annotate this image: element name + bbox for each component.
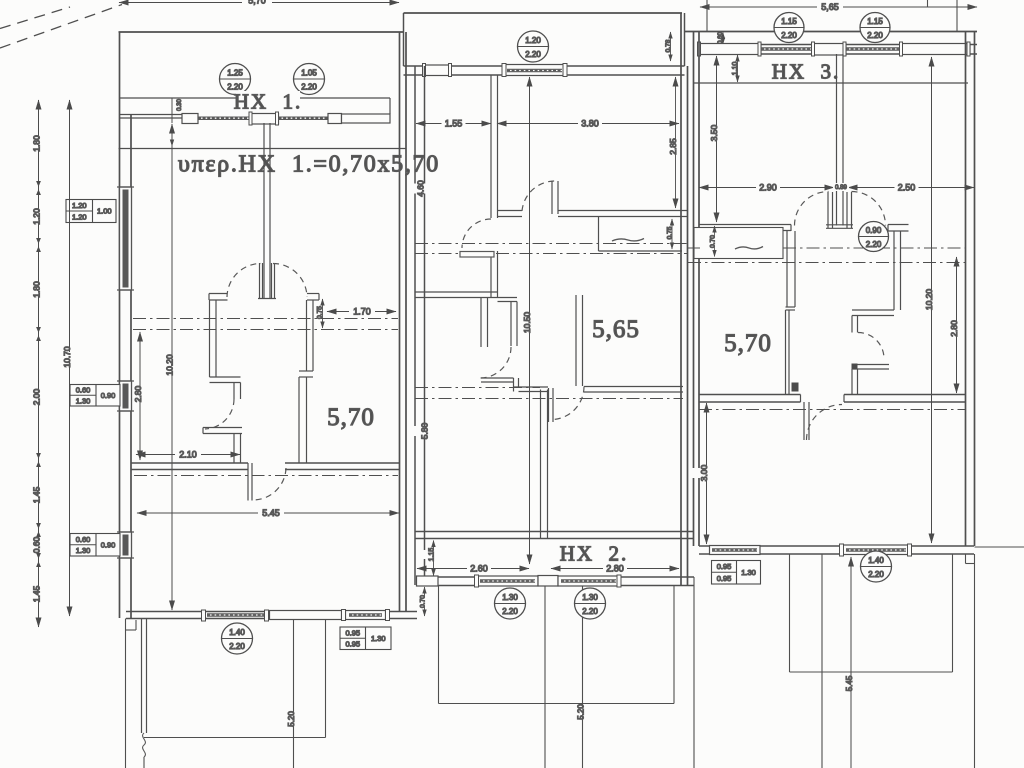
svg-text:1.20: 1.20 [525,36,541,45]
HX3 lower interior wall right [844,394,966,396]
HX2 left wall [414,66,416,585]
left dimension chain [38,100,40,627]
HX2 room axis upper [415,387,540,389]
HX1 left window 1 [120,187,132,290]
svg-text:1.15: 1.15 [781,17,797,26]
HX3 right edge lower [965,554,967,564]
label box 0.95/0.95/1.30 HX3 [712,561,761,585]
svg-text:2.20: 2.20 [781,31,797,40]
HX2 bottom window left [477,576,538,586]
HX3 door swing arc right [852,192,886,226]
dimension 10.20 HX3 [931,57,933,543]
HX2 wall step lower [513,378,515,392]
HX1 left window 2 [120,381,132,411]
label box 0.60/1.30/0.90 upper [70,385,120,407]
HX2 bottom sill left [417,576,439,586]
HX1 center mullion [263,123,265,298]
svg-text:0.95: 0.95 [345,628,360,637]
svg-text:2.85: 2.85 [668,138,678,155]
HX1 porch right line [325,619,327,738]
HX1 porch divider line [293,619,295,768]
svg-text:5.80: 5.80 [419,422,429,439]
svg-text:1.30: 1.30 [76,546,91,555]
HX1 porch left wall [141,619,143,734]
HX1 interior wall right lower [298,377,300,463]
HX1 interior wall lower [233,434,235,464]
svg-text:1.20: 1.20 [72,201,87,210]
svg-text:0.90: 0.90 [101,540,116,549]
svg-text:2.90: 2.90 [759,183,777,193]
svg-text:2.10: 2.10 [179,450,197,460]
svg-text:1.80: 1.80 [31,135,41,152]
svg-text:10.20: 10.20 [924,289,934,311]
label HX 1. [236,91,300,111]
HX3 bottom window right [843,545,910,555]
HX1 lower door leaf [247,463,249,501]
left overall dimension 10.70 [69,100,71,616]
svg-text:1.30: 1.30 [741,568,756,577]
HX3 wall left of door [699,224,791,226]
HX2 bottom window pier [538,576,558,587]
HX1 interior door arc [205,399,234,429]
HX3 window sill right [901,44,971,55]
HX2 porch bottom [439,703,675,705]
HX3 hall axis upper [688,247,700,249]
HX3 door swing arc left [795,192,829,226]
HX3 lower door arc [807,405,843,441]
HX1 lower interior wall right [285,462,399,464]
HX3 bottom door circle 1.40/2.20 [861,551,892,582]
HX2 front window wall [404,65,685,67]
svg-text:5,70: 5,70 [327,404,375,431]
svg-text:1.15: 1.15 [867,17,883,26]
label box 1.20/1.20/1.00 [66,200,116,223]
svg-text:0.70: 0.70 [419,595,426,608]
svg-text:5,65: 5,65 [821,2,839,12]
HX2 interior wall upper [490,75,492,218]
HX2 interior step [498,210,523,212]
HX1 glazing right [279,116,329,118]
HX3 interior door arc [858,333,884,359]
dimension 0.50 HX1 lintel lower [171,126,173,146]
dimension 1.55 HX2 [416,123,491,125]
HX3 terrace circle 1.15/2.20 right [860,13,890,43]
HX3 right room wall upper [893,231,895,310]
svg-text:1.30: 1.30 [582,593,598,602]
HX2 door leaf upper [551,181,553,214]
HX1 front wall left part [119,114,182,116]
site boundary dashed diagonal upper [0,7,70,29]
HX1 bottom wall [126,611,417,613]
svg-text:0.95: 0.95 [717,562,732,571]
dimension 2.85 HX2 [675,77,677,208]
HX3 terrace circle 1.15/2.20 left [774,13,804,43]
site boundary dashed diagonal [0,5,122,49]
svg-text:1.55: 1.55 [445,119,463,129]
svg-text:0.75: 0.75 [666,226,673,239]
HX3 left room pier [792,383,799,392]
HX1 upper interior line [119,97,390,99]
dimension 1.10 HX3 [737,55,739,82]
HX2 bottom window right [558,576,619,586]
svg-text:2.20: 2.20 [502,607,518,616]
dimension 3.00 HX3 [706,403,708,544]
HX3 door jamb right [888,224,909,226]
dimension 1.70 HX1 [327,311,396,313]
svg-text:2.20: 2.20 [868,570,884,579]
svg-text:5.20: 5.20 [287,711,296,727]
svg-text:0.30: 0.30 [177,99,183,111]
svg-text:0.60: 0.60 [76,535,91,544]
svg-text:2.80: 2.80 [606,564,624,574]
dimension 0.70 between units [424,587,426,616]
HX1 line under uper label [119,148,407,150]
svg-text:2.20: 2.20 [582,607,598,616]
HX2 porch circle 1.30/2.20 left [495,588,526,619]
svg-text:1.30: 1.30 [76,396,91,405]
svg-text:0.95: 0.95 [345,640,360,649]
svg-text:5.45: 5.45 [262,508,280,518]
HX3 leader line right [956,0,958,32]
HX3 glazing right [846,47,901,49]
HX2 top wall [404,12,683,14]
dimension 0.78 HX2 terrace [670,32,672,61]
HX1 interior wall right upper [306,300,308,371]
HX3 folding door leaves [827,192,829,228]
HX2 niche closet [598,217,600,252]
HX1 left window 3 [120,532,132,558]
dimension 3.50 HX3 [716,56,718,222]
svg-text:1.45: 1.45 [31,486,41,503]
svg-text:2.20: 2.20 [867,31,883,40]
dimension 10.20 HX1 [171,98,173,123]
label box 0.60/1.30/0.90 lower [70,534,120,557]
svg-text:1.10: 1.10 [732,62,739,76]
dimension 2.90 0.89 2.50 HX3 [699,187,834,189]
HX1 bottom glazing [202,610,206,621]
HX1 interior wall left room [209,300,211,377]
HX2 interior wall left door [490,251,492,298]
HX1 porch bottom line [144,737,326,739]
svg-text:1.45: 1.45 [31,585,41,602]
svg-text:0.60: 0.60 [718,32,724,44]
HX1 glazing left [198,116,250,118]
HX3 left room wall step [786,306,796,308]
svg-text:0.75: 0.75 [316,306,323,319]
HX1 door swing arc right [273,264,307,298]
HX3 left wall [693,32,695,547]
svg-text:5.20: 5.20 [576,704,585,720]
svg-text:HX 1.: HX 1. [234,89,303,113]
svg-text:2.00: 2.00 [31,388,41,405]
dimension 5,70 top of HX1 [119,2,242,4]
HX3 bottom window left [710,546,761,555]
HX3 porch divider [821,555,823,768]
dimension 10.50 HX2 [529,77,531,564]
HX3 door circle 0.90/2.20 [859,222,889,252]
HX1 top wall [119,31,404,33]
HX1 window jamb box left [182,114,198,124]
HX1 lower interior wall left [131,462,248,464]
HX3 hall axis bottom [699,409,965,411]
dimension 2.60 2.80 HX2 [417,568,529,570]
svg-text:2.80: 2.80 [133,385,143,402]
dimension 2.10 HX1 [136,454,240,456]
svg-text:0.89: 0.89 [835,185,847,191]
HX2 terrace left edge [403,13,405,66]
HX1 folding door leaves [259,263,261,298]
HX2 wall across left room [415,291,498,293]
HX1 hall axis line upper [133,318,398,320]
HX3 lower door leaf [803,402,805,440]
unit boundary line below HX2 [693,577,695,768]
svg-text:0.90: 0.90 [866,226,882,235]
HX3 porch bottom [790,671,953,673]
HX2 center wall lower [540,390,542,539]
HX3 window sill center [813,44,847,56]
HX2 closet wall [480,298,482,348]
HX2 porch circle 1.30/2.20 right [575,588,606,619]
svg-text:1.70: 1.70 [353,307,371,317]
svg-text:1.05: 1.05 [301,69,317,78]
svg-text:υπερ.HX 1.=0,70x5,70: υπερ.HX 1.=0,70x5,70 [178,151,440,177]
HX3 bottom wall [699,545,974,547]
svg-text:2.80: 2.80 [949,320,959,337]
HX3 right room wall horizontal [852,309,894,311]
svg-text:0.95: 0.95 [717,574,732,583]
HX2 terrace circle 1.20/2.20 [518,31,549,62]
HX3 right wall [965,32,967,547]
HX3 line under label [694,82,969,84]
HX1 interior wall step [210,376,241,378]
HX1 front wall right box [342,114,391,123]
svg-text:5.45: 5.45 [845,675,854,691]
svg-text:0.60: 0.60 [76,386,91,395]
HX2 wall mid horizontal [558,210,688,212]
HX1 bottom door circle 1.40/2.20 [222,623,253,654]
HX1 bottom window [346,611,386,620]
svg-text:1.40: 1.40 [229,628,245,637]
HX3 porch left [789,555,791,673]
dimension 4.60 HX2 left [409,184,433,194]
HX3 porch dimension 5.45 [850,557,852,768]
HX2 room axis lower [415,398,683,400]
HX2 door stub left [460,252,494,258]
HX1 upper left wall [119,32,121,114]
svg-text:HX 3.: HX 3. [772,59,841,83]
HX3 window sill left [699,44,762,55]
svg-text:1.20: 1.20 [31,208,41,225]
svg-text:1.15: 1.15 [428,548,435,562]
HX2 bottom window wall [416,576,694,578]
svg-text:0.60: 0.60 [31,536,41,553]
svg-text:1.00: 1.00 [97,207,112,216]
HX2 hall axis upper [415,243,688,245]
HX1 bottom sill box [270,611,342,620]
HX3 lower interior wall left [699,394,801,396]
HX3 closet [694,228,783,259]
dimension 0.75 HX2 niche [671,219,673,249]
dimension 1.15 HX2 left [433,541,435,576]
HX2 porch right [673,586,675,704]
svg-text:5,70: 5,70 [724,330,772,357]
svg-text:10.50: 10.50 [522,312,532,334]
HX2 wall 5,65 room [575,295,577,386]
HX2 bottom interior wall [415,531,694,533]
HX1 door circle 1.25/2.20 [220,64,251,95]
HX1 outer left edge lower [125,619,127,768]
HX1 left wall [119,114,121,618]
HX2 door arc upper [522,181,555,211]
svg-text:1.25: 1.25 [227,69,243,78]
HX2 porch dimension 5.20 [582,586,584,768]
dimension 2.80 HX1 [139,332,141,460]
svg-text:1.20: 1.20 [72,212,87,221]
HX2 hall axis lower [415,253,458,255]
HX3 top wall [685,31,978,33]
HX2 door arc 5,65 room [553,387,584,420]
HX3 glazing left [761,47,813,49]
svg-text:1.40: 1.40 [868,556,884,565]
dimension 0.70 HX3 closet [714,226,716,257]
svg-text:2.20: 2.20 [525,50,541,59]
HX2 door arc left [462,219,491,248]
HX2 porch divider [544,586,546,768]
HX1 interior wall right step [299,370,313,372]
svg-text:3.50: 3.50 [709,124,719,141]
svg-text:4.60: 4.60 [415,180,425,197]
HX2 front window [504,65,565,76]
svg-text:3.80: 3.80 [581,119,599,129]
HX3 hall axis lower [688,262,965,264]
svg-text:5,65: 5,65 [592,316,640,343]
HX2 right wall [680,13,682,585]
svg-text:0.78: 0.78 [665,39,672,52]
svg-text:1.30: 1.30 [371,634,386,643]
HX3 left room wall upper [786,231,788,307]
HX3 leader line left [927,0,929,7]
svg-text:3.00: 3.00 [699,464,709,481]
svg-text:1.80: 1.80 [31,281,41,298]
svg-text:10.70: 10.70 [62,346,72,368]
HX3 right room wall jamb [851,316,853,333]
HX3 right room wall lower [851,369,853,395]
dimension 3.80 HX2 [497,123,679,125]
svg-text:HX 2.: HX 2. [560,541,629,565]
svg-text:10.20: 10.20 [164,354,174,376]
dimension 5,65 top of HX3 [700,6,977,8]
HX3 interior door stub [853,364,889,366]
HX1 hall axis line lower [133,329,398,331]
HX3 center mullion [836,54,838,226]
HX2 window sill small [424,65,452,76]
HX2 wall step below left room [498,297,518,299]
svg-text:2.60: 2.60 [470,564,488,574]
HX1 interior wall jamb [233,383,235,400]
dimension 2.80 HX3 [956,257,958,393]
dimension 0.75 HX1 doorway [322,299,324,328]
HX1 window jamb box right [328,114,342,124]
svg-text:0.90: 0.90 [101,391,116,400]
label box 0.95/0.95/1.30 HX1 [340,627,391,650]
svg-text:2.50: 2.50 [898,183,916,193]
svg-text:2.20: 2.20 [301,83,317,92]
HX2 door stub lower [481,377,514,379]
HX3 front window wall [699,44,977,46]
HX1 hall axis line bottom [134,475,398,477]
HX1 door swing arc left [227,264,261,298]
dimension 5.45 HX1 [137,512,399,514]
svg-text:5,70: 5,70 [248,0,266,6]
svg-text:1.30: 1.30 [502,593,518,602]
svg-text:2.20: 2.20 [866,240,882,249]
HX1 right wall [399,32,401,612]
HX1 window sill center [250,114,279,125]
svg-text:2.20: 2.20 [229,642,245,651]
svg-text:0.70: 0.70 [709,235,716,248]
dimension 5.80 HX2 left [413,426,437,436]
HX3 porch right [952,555,954,673]
HX3 left room wall lower [785,310,787,395]
dimension 0.60 HX3 terrace [722,33,724,45]
HX2 door leaf 5,65 room [548,388,550,422]
HX1 door jamb right [307,293,319,295]
HX1 door circle 1.05/2.20 [294,64,325,95]
HX1 door jamb left [209,293,228,295]
HX2 door arc lower left [480,347,511,378]
HX1 interior door stub [203,427,242,429]
HX1 lower door arc [253,468,286,500]
HX1 porch break squiggle [143,733,146,757]
HX2 porch left [438,586,440,704]
